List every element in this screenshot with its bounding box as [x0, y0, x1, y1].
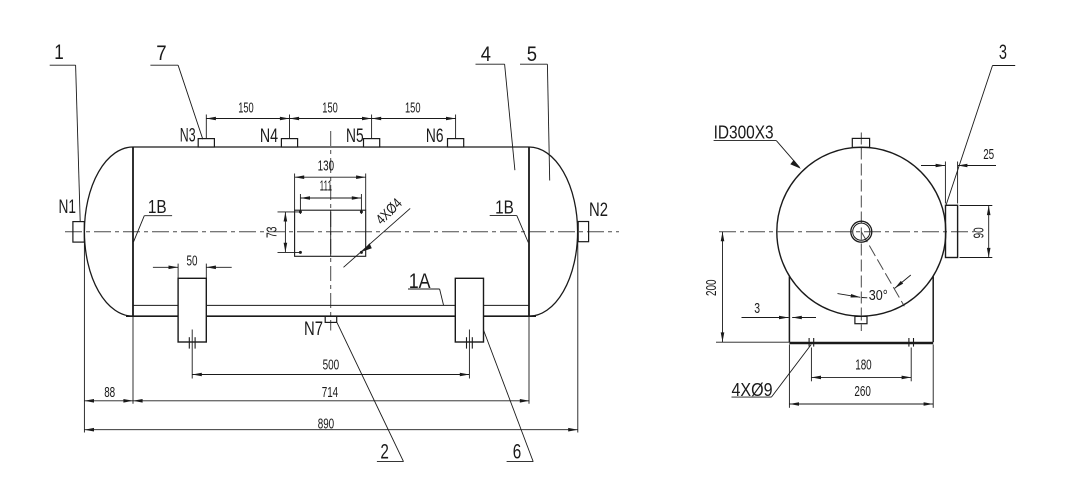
nozzle N7 [325, 316, 337, 322]
dimension 150 runs [206, 115, 455, 139]
nozzle N1 [73, 222, 84, 243]
svg-text:1B: 1B [148, 196, 167, 217]
base left wall [788, 277, 790, 343]
bolt hole top-right [360, 210, 363, 213]
svg-text:150: 150 [405, 101, 421, 117]
svg-text:N7: N7 [304, 318, 323, 340]
leader callout 4 [476, 64, 515, 170]
bottom nozzle right view [855, 316, 867, 323]
extension line right tangent below shell [528, 317, 530, 404]
svg-text:30°: 30° [869, 288, 888, 304]
dimension 111 [300, 194, 361, 214]
dimension 714 [133, 400, 529, 402]
svg-text:6: 6 [513, 440, 522, 463]
svg-text:200: 200 [704, 280, 720, 297]
svg-text:1A: 1A [409, 270, 431, 293]
svg-text:5: 5 [527, 43, 537, 66]
dimension 3 thickness [742, 317, 817, 319]
saddle right [455, 278, 483, 342]
svg-text:1: 1 [54, 41, 64, 64]
bolt hole bottom-right [360, 251, 363, 254]
svg-text:N2: N2 [589, 199, 608, 221]
svg-text:73: 73 [265, 227, 281, 239]
saddle left extension lines for 50 dim [177, 264, 179, 279]
centerline horizontal left view [65, 231, 619, 233]
centerline horizontal right view [719, 231, 974, 233]
svg-text:N4: N4 [260, 125, 278, 147]
redraw vertical centerline inside circle [860, 148, 862, 317]
dimension 73 [278, 212, 302, 253]
leader callout 1 [50, 65, 80, 221]
svg-text:130: 130 [318, 159, 335, 175]
dimension 500 [192, 374, 469, 376]
leader callout 7 [150, 65, 202, 139]
extension line left tangent below shell [132, 317, 134, 404]
svg-text:4: 4 [481, 43, 491, 66]
saddle left [178, 278, 206, 342]
svg-text:N6: N6 [426, 125, 444, 147]
redraw horizontal centerline inside circle [777, 231, 946, 233]
saddle right bolt ticks [466, 337, 468, 348]
top nozzle right view [852, 138, 869, 147]
leader callout 6 [484, 330, 534, 462]
extension line left head tip [83, 242, 85, 432]
svg-text:ID300X3: ID300X3 [714, 122, 774, 143]
dimension 88 [84, 400, 133, 402]
svg-text:260: 260 [854, 384, 871, 400]
bolt plate rectangle on shell [295, 210, 366, 256]
nozzle N5 [364, 139, 380, 147]
base right wall [932, 277, 934, 343]
svg-text:150: 150 [238, 101, 254, 117]
svg-text:90: 90 [972, 227, 988, 238]
dimension 180 [811, 348, 911, 382]
bolt plate center vertical [330, 210, 332, 256]
svg-text:N1: N1 [59, 196, 77, 218]
bolt hole top-left [299, 210, 302, 213]
svg-text:890: 890 [318, 416, 335, 432]
tank shell top line [133, 146, 529, 148]
leader callout 3 [945, 66, 1015, 208]
centerline vertical right view [860, 133, 862, 332]
nozzle N6 [448, 139, 464, 147]
extension line right head tip [577, 242, 579, 433]
svg-text:111: 111 [320, 179, 333, 195]
dimension 260 [789, 345, 933, 408]
centerline vertical left view [330, 131, 332, 331]
leader 4xphi4 [344, 208, 411, 267]
dimension 50 [153, 266, 232, 268]
left elliptical head [84, 147, 133, 316]
svg-text:88: 88 [104, 385, 115, 401]
svg-text:N3: N3 [180, 125, 196, 147]
svg-text:7: 7 [156, 42, 166, 65]
30 degree dashed ray [861, 232, 904, 307]
vessel circle [777, 147, 946, 316]
base bolt ticks right [908, 338, 910, 347]
saddle left bolt centerline [191, 330, 193, 379]
svg-text:2: 2 [380, 440, 389, 463]
left tangent seam line [132, 147, 134, 317]
base bolt ticks left [808, 338, 810, 347]
svg-text:3: 3 [999, 41, 1007, 64]
svg-text:N5: N5 [346, 125, 364, 147]
nozzle N4 [281, 139, 297, 147]
dimension 890 [84, 429, 577, 431]
leader 4xphi9 [732, 345, 812, 398]
leader callout 5 [520, 64, 550, 180]
side plate right view [946, 205, 958, 257]
svg-text:1B: 1B [495, 196, 514, 217]
nozzle N3 [198, 139, 214, 147]
svg-text:4XØ9: 4XØ9 [732, 379, 773, 400]
leader callout 1B right [490, 216, 529, 243]
base bottom plate [789, 342, 933, 344]
center nozzle outer circle [851, 221, 872, 242]
leader callout 1A [408, 289, 444, 305]
svg-text:4XØ4: 4XØ4 [373, 196, 406, 229]
svg-text:150: 150 [322, 101, 338, 117]
svg-text:500: 500 [323, 358, 340, 374]
saddle left bolt ticks [188, 337, 190, 348]
dimension 90 [960, 206, 993, 258]
center nozzle inner circle [853, 223, 870, 240]
bolt hole bottom-left [299, 251, 302, 254]
redraw 30 degree ray inside circle [861, 232, 903, 305]
30 degree angle arrows [838, 275, 911, 298]
leader callout 1B left [134, 216, 173, 242]
svg-text:714: 714 [322, 385, 339, 401]
tank shell bottom line [126, 315, 536, 317]
dimension 25 [921, 162, 996, 204]
right tangent seam line [528, 147, 530, 317]
leader ID300X3 [714, 141, 800, 168]
runner bar line left segment [133, 304, 529, 306]
leader callout 2 [337, 323, 404, 462]
dimension 200 [716, 232, 789, 343]
svg-text:180: 180 [855, 357, 872, 373]
saddle right bolt centerline [468, 330, 470, 379]
dimension 130 [295, 174, 366, 211]
svg-text:3: 3 [754, 301, 760, 317]
svg-text:25: 25 [983, 147, 994, 163]
right elliptical head [529, 147, 578, 316]
nozzle N2 [578, 222, 588, 242]
svg-text:50: 50 [187, 253, 198, 269]
